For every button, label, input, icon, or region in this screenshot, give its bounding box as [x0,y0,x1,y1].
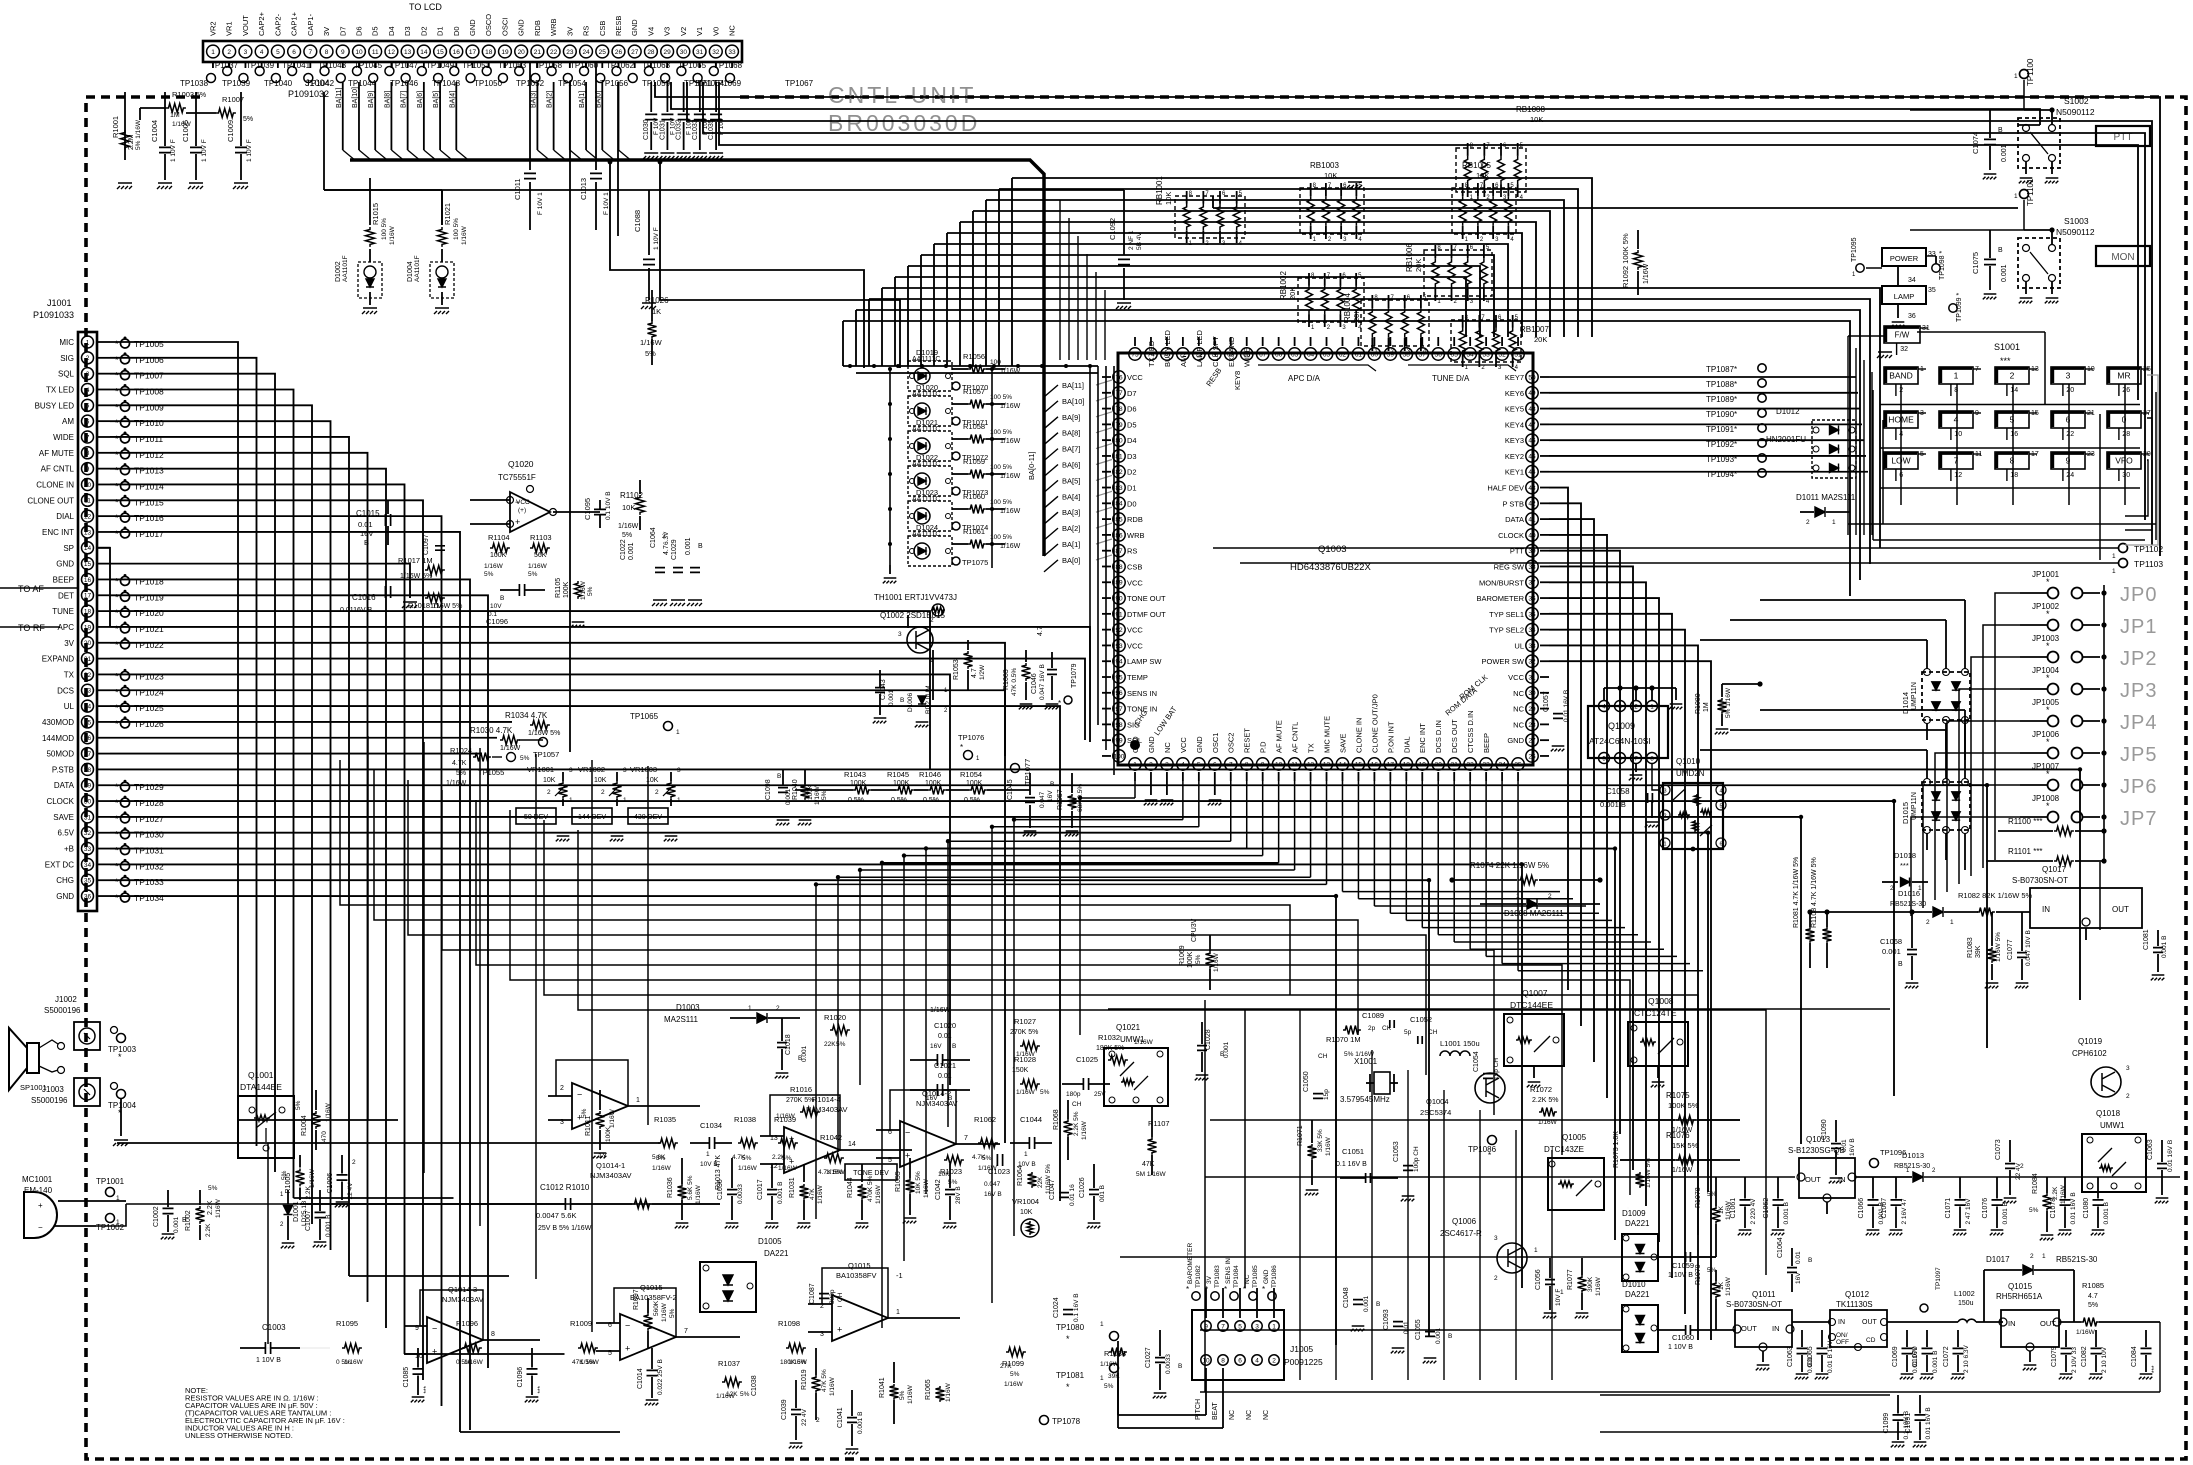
svg-text:R1046: R1046 [919,770,941,779]
svg-text:Q1019: Q1019 [2078,1037,2103,1046]
svg-text:1/16W: 1/16W [788,1359,808,1366]
svg-text:2 220 4V: 2 220 4V [1750,1198,1757,1225]
svg-text:RS: RS [582,26,591,36]
svg-text:IN: IN [1772,1324,1780,1333]
svg-text:TP1057: TP1057 [533,750,559,759]
svg-text:0.001 B: 0.001 B [777,1182,784,1204]
svg-text:CH: CH [837,1292,844,1302]
svg-text:D1005: D1005 [758,1237,782,1246]
svg-text:1/16W 5%: 1/16W 5% [528,730,560,737]
svg-text:15: 15 [1355,761,1363,768]
svg-text:C1084: C1084 [2131,1346,2138,1367]
svg-text:2.2K 5%: 2.2K 5% [1073,1111,1080,1136]
svg-text:C1002: C1002 [153,1206,160,1227]
svg-text:0.047: 0.047 [1039,791,1046,808]
svg-text:TP1038: TP1038 [180,79,209,88]
svg-text:9: 9 [86,466,90,473]
svg-text:R1004: R1004 [301,1115,308,1136]
svg-text:R1056: R1056 [963,352,985,361]
svg-text:L1002: L1002 [1954,1289,1975,1298]
svg-text:GND: GND [1195,736,1204,753]
svg-text:90: 90 [1115,595,1123,602]
svg-text:*: * [115,782,119,792]
svg-text:1/2W: 1/2W [979,664,986,680]
svg-text:IN: IN [2042,905,2050,914]
svg-text:22: 22 [1467,761,1475,768]
svg-text:R1082 82K 1/16W 5%: R1082 82K 1/16W 5% [1958,891,2033,900]
svg-text:1: 1 [1832,519,1836,526]
svg-text:*: * [1066,1334,1070,1344]
svg-text:10: 10 [355,49,363,56]
svg-text:5%: 5% [295,1100,302,1110]
svg-text:48: 48 [1528,406,1536,413]
svg-text:52: 52 [1498,351,1506,358]
svg-text:JP0: JP0 [2120,584,2157,606]
svg-text:12: 12 [1954,472,1962,479]
svg-text:TP1050: TP1050 [474,79,503,88]
svg-text:32: 32 [84,830,92,837]
svg-text:DA221: DA221 [764,1249,789,1258]
svg-text:7: 7 [1229,761,1233,768]
svg-text:C1041: C1041 [837,1407,844,1428]
svg-text:R1103: R1103 [530,533,552,542]
svg-text:BA[8]: BA[8] [384,91,391,108]
svg-text:TP1023: TP1023 [134,671,164,681]
svg-text:3: 3 [1663,788,1666,794]
svg-text:LAMP LED: LAMP LED [1195,329,1204,367]
svg-text:R1097: R1097 [633,1289,640,1310]
svg-text:22: 22 [2066,431,2074,438]
svg-text:BEAT: BEAT [1212,1402,1219,1420]
svg-text:C1096: C1096 [486,617,508,626]
svg-text:2.2K: 2.2K [205,1223,212,1237]
svg-text:*: * [115,386,119,396]
svg-text:100 5%: 100 5% [990,534,1012,541]
svg-text:C1009: C1009 [226,120,235,142]
svg-text:R1105: R1105 [555,578,562,598]
svg-text:TP1095: TP1095 [1851,237,1858,262]
svg-text:66: 66 [1275,351,1283,358]
svg-text:79: 79 [1115,422,1123,429]
svg-text:7: 7 [86,434,90,441]
svg-text:C1068: C1068 [1880,937,1902,946]
svg-text:24: 24 [1498,761,1506,768]
svg-text:BA[10]: BA[10] [1062,397,1085,406]
svg-text:D2: D2 [1127,468,1137,477]
svg-text:2: 2 [1149,761,1153,768]
svg-text:1/16W: 1/16W [464,1359,484,1366]
svg-text:29: 29 [1528,706,1536,713]
svg-text:13: 13 [84,529,92,536]
svg-text:1M: 1M [1703,702,1710,712]
svg-text:AA1111C: AA1111C [912,531,940,538]
svg-text:100 5%: 100 5% [990,394,1012,401]
svg-text:470: 470 [321,1131,328,1142]
svg-text:TP1016: TP1016 [134,513,164,523]
svg-text:0.01 16V B: 0.01 16V B [2167,1140,2174,1172]
svg-text:JP3: JP3 [2120,680,2157,702]
svg-text:*: * [115,861,119,871]
svg-text:TP1056: TP1056 [600,79,629,88]
svg-text:*: * [115,371,119,381]
svg-text:JP2: JP2 [2120,648,2157,670]
svg-text:−: − [577,1090,582,1100]
svg-text:62: 62 [1339,351,1347,358]
svg-text:CLONE OUT: CLONE OUT [27,496,74,505]
svg-text:+: + [625,1344,630,1354]
svg-text:84: 84 [1115,501,1123,508]
svg-text:TP1007: TP1007 [134,371,164,381]
svg-text:17: 17 [469,49,477,56]
svg-text:4.7: 4.7 [971,668,978,678]
svg-text:*: * [115,624,119,634]
svg-text:TUNE D/A: TUNE D/A [1432,374,1470,383]
svg-text:TEMP: TEMP [1127,673,1148,682]
svg-text:DCS D.IN: DCS D.IN [1434,720,1443,753]
svg-text:VOUT: VOUT [241,15,250,36]
svg-text:DIAL: DIAL [56,512,74,521]
svg-text:B: B [952,1043,956,1050]
svg-text:17: 17 [84,593,92,600]
svg-text:C1059: C1059 [1672,1261,1694,1270]
svg-text:1/16W: 1/16W [661,1302,668,1322]
svg-text:D2: D2 [419,26,428,36]
svg-text:NJM3403AV: NJM3403AV [442,1295,484,1304]
svg-text:UMP11N: UMP11N [1911,792,1918,820]
svg-text:*: * [115,877,119,887]
svg-text:0.001: 0.001 [173,1216,180,1233]
svg-text:RB521S-30: RB521S-30 [1890,901,1926,908]
svg-text:DA221: DA221 [1625,1219,1650,1228]
svg-text:MR: MR [2117,371,2130,381]
svg-text:TX LED: TX LED [1147,340,1156,367]
svg-text:C1028: C1028 [1205,1029,1212,1050]
svg-text:22: 22 [550,49,558,56]
svg-text:D1006: D1006 [907,692,914,712]
svg-text:16V B: 16V B [1849,1138,1856,1156]
svg-text:D4: D4 [387,26,396,36]
svg-text:EXPAND: EXPAND [42,655,75,664]
svg-text:0.01 16: 0.01 16 [1069,1184,1076,1206]
svg-text:TP1063: TP1063 [642,61,671,70]
svg-text:28: 28 [2122,431,2130,438]
svg-text:TP1013: TP1013 [134,466,164,476]
svg-text:8: 8 [491,1331,495,1338]
svg-text:NC: NC [1163,742,1172,753]
svg-text:0.001 B: 0.001 B [2161,936,2168,958]
svg-text:BA[7]: BA[7] [1062,445,1080,454]
svg-text:5% 1/16W: 5% 1/16W [1344,1051,1375,1058]
svg-text:39: 39 [1528,548,1536,555]
svg-text:2: 2 [1494,1275,1498,1282]
svg-text:D5: D5 [1127,420,1137,429]
svg-text:OSCO: OSCO [484,14,493,36]
svg-text:1/16W: 1/16W [875,1184,882,1204]
svg-text:R1061: R1061 [963,527,985,536]
svg-text:R1043: R1043 [844,770,866,779]
svg-text:98: 98 [1115,722,1123,729]
svg-text:TP1014: TP1014 [134,481,164,491]
svg-text:1/16W: 1/16W [1643,263,1650,284]
svg-text:P.ON INT: P.ON INT [1386,721,1395,753]
svg-text:+: + [515,517,520,527]
svg-text:UNLESS OTHERWISE NOTED.: UNLESS OTHERWISE NOTED. [185,1431,293,1440]
svg-text:CAP2+: CAP2+ [257,11,266,36]
svg-text:81: 81 [1115,453,1123,460]
svg-text:*: * [115,513,119,523]
svg-text:OUT: OUT [1862,1319,1878,1326]
svg-text:*: * [115,640,119,650]
svg-text:D1010: D1010 [1622,1280,1646,1289]
svg-text:10K: 10K [1164,192,1173,205]
svg-text:10: 10 [1202,1357,1210,1364]
svg-text:31: 31 [1528,674,1536,681]
svg-text:TP1058: TP1058 [534,61,563,70]
svg-text:1/16W 5%: 1/16W 5% [430,603,462,610]
svg-text:0.047 16V B: 0.047 16V B [1039,664,1046,700]
svg-text:1Y: 1Y [598,1151,607,1160]
svg-text:C1054: C1054 [1473,1051,1480,1072]
svg-text:TYP SEL2: TYP SEL2 [1489,626,1524,635]
svg-text:3V: 3V [322,27,331,36]
svg-text:R1068: R1068 [1053,1109,1060,1130]
svg-text:C1038: C1038 [751,1375,758,1396]
svg-text:5%: 5% [243,116,253,123]
svg-text:TP1049: TP1049 [426,61,455,70]
svg-text:9: 9 [1261,761,1265,768]
svg-text:R1070 1M: R1070 1M [1326,1035,1361,1044]
svg-text:R1104: R1104 [488,533,510,542]
svg-text:25V B 5% 1/16W: 25V B 5% 1/16W [538,1225,592,1232]
svg-text:12: 12 [1307,761,1315,768]
svg-text:34: 34 [84,862,92,869]
svg-text:10: 10 [1275,761,1283,768]
svg-text:BA[6]: BA[6] [1062,461,1080,470]
svg-text:1/16W: 1/16W [829,1376,836,1396]
svg-text:56: 56 [1435,351,1443,358]
svg-text:5: 5 [86,403,90,410]
svg-text:TP1099 *: TP1099 * [1956,293,1963,322]
svg-text:560K: 560K [653,1300,660,1316]
svg-text:NC: NC [1229,1410,1236,1420]
svg-text:D1017: D1017 [1986,1255,2010,1264]
svg-text:UMD2N: UMD2N [1676,769,1705,778]
svg-text:27: 27 [631,49,639,56]
svg-text:1/16W: 1/16W [1004,1381,1024,1388]
svg-text:AA1101F: AA1101F [342,255,349,282]
svg-text:BA10358FV: BA10358FV [836,1271,876,1280]
svg-text:RH5RH651A: RH5RH651A [1996,1292,2043,1301]
svg-text:JP4: JP4 [2120,712,2157,734]
svg-text:TK11130S: TK11130S [1836,1300,1873,1309]
svg-text:***: *** [1900,861,1909,870]
svg-text:BA[5]: BA[5] [433,91,440,108]
svg-text:R1009: R1009 [570,1319,592,1328]
svg-text:*: * [115,671,119,681]
svg-text:22K: 22K [1037,1176,1044,1188]
svg-text:16: 16 [453,49,461,56]
svg-text:NJM3403AV: NJM3403AV [806,1105,848,1114]
svg-text:8: 8 [1221,1357,1225,1364]
svg-text:1: 1 [896,1309,900,1316]
svg-text:0.01: 0.01 [1841,1139,1848,1152]
svg-text:TH1001 ERTJ1VV473J: TH1001 ERTJ1VV473J [874,593,957,602]
svg-text:20: 20 [1435,761,1443,768]
svg-text:KEY7: KEY7 [1505,373,1524,382]
svg-text:R1057: R1057 [963,387,985,396]
svg-text:*: * [115,687,119,697]
svg-text:TP1002: TP1002 [96,1223,125,1232]
svg-text:64: 64 [1307,351,1315,358]
svg-text:5: 5 [1197,761,1201,768]
svg-text:150u: 150u [1958,1300,1974,1307]
svg-text:PITCH: PITCH [1195,1399,1202,1420]
svg-text:8: 8 [2010,456,2015,466]
svg-text:9: 9 [2066,456,2071,466]
svg-text:D1011 MA2S111: D1011 MA2S111 [1796,493,1856,502]
svg-text:6: 6 [1213,761,1217,768]
svg-text:R1069: R1069 [1179,945,1186,966]
svg-text:100: 100 [1114,753,1125,760]
svg-text:29: 29 [84,783,92,790]
svg-text:BEEP: BEEP [1482,733,1491,753]
svg-text:1: 1 [1024,1151,1028,1158]
svg-text:35: 35 [84,878,92,885]
svg-text:AA1111C: AA1111C [912,461,940,468]
svg-text:C1079: C1079 [2051,1346,2058,1367]
svg-text:C1063: C1063 [2147,1139,2154,1160]
svg-text:OUT: OUT [1805,1175,1821,1184]
svg-text:10V F: 10V F [1555,1289,1562,1306]
svg-text:ENC INT: ENC INT [1418,723,1427,753]
svg-text:TP1011: TP1011 [134,434,163,444]
svg-text:76: 76 [1115,374,1123,381]
svg-text:B: B [1898,961,1903,968]
svg-text:R1072: R1072 [1530,1085,1552,1094]
svg-text:−: − [905,1128,910,1138]
svg-text:1: 1 [2112,568,2116,575]
svg-text:5B 4V: 5B 4V [1136,232,1143,250]
svg-text:VCC: VCC [1508,673,1524,682]
svg-text:C1095: C1095 [583,498,592,520]
svg-text:1/16W: 1/16W [580,1359,600,1366]
svg-text:B: B [1178,1363,1182,1370]
svg-text:BA[0-11]: BA[0-11] [1027,451,1036,480]
svg-text:CH: CH [1072,1101,1082,1108]
svg-text:S5000196: S5000196 [44,1006,81,1015]
svg-text:80: 80 [1115,438,1123,445]
svg-text:D1016: D1016 [1898,889,1920,898]
svg-text:2.2M: 2.2M [128,134,135,150]
svg-text:TO RF: TO RF [18,623,45,633]
svg-text:C1076: C1076 [1982,1198,1989,1219]
svg-text:*: * [115,497,119,507]
svg-text:AF MUTE: AF MUTE [1275,720,1284,753]
svg-text:OFF: OFF [1836,1339,1849,1346]
svg-text:***: *** [2000,356,2011,366]
svg-text:1: 1 [2042,1253,2046,1260]
svg-text:BA[1]: BA[1] [579,91,586,108]
svg-text:VCC: VCC [1127,626,1143,635]
svg-text:HALF DEV: HALF DEV [1487,484,1524,493]
svg-text:*: * [960,743,963,752]
svg-text:1/16W: 1/16W [172,121,192,128]
svg-text:D5: D5 [371,26,380,36]
svg-text:GND: GND [1131,736,1140,753]
svg-text:BA[3]: BA[3] [530,91,537,108]
svg-text:C1096: C1096 [517,1367,524,1388]
svg-text:TP1037: TP1037 [210,61,239,70]
svg-text:−: − [432,1324,437,1334]
svg-text:*: * [115,893,119,903]
svg-text:P1091032: P1091032 [288,89,329,99]
svg-text:47K 5%: 47K 5% [821,1369,828,1392]
svg-text:TP1001: TP1001 [96,1177,125,1186]
svg-text:TP1086: TP1086 [1271,1265,1278,1288]
svg-text:R1028: R1028 [1014,1055,1036,1064]
svg-text:TUNE: TUNE [52,607,74,616]
svg-text:D1009: D1009 [1622,1209,1646,1218]
svg-text:5M 1/16W: 5M 1/16W [1136,1171,1166,1178]
svg-text:10K: 10K [1020,1209,1033,1216]
svg-text:OUT: OUT [2112,905,2129,914]
svg-text:63: 63 [1323,351,1331,358]
svg-text:2: 2 [2030,1253,2034,1260]
svg-text:R1108 4.7K 1/16W 5%: R1108 4.7K 1/16W 5% [1811,857,1818,928]
svg-text:1K: 1K [652,307,661,316]
svg-text:0.01 16V B: 0.01 16V B [1563,690,1570,722]
svg-text:5%: 5% [484,571,494,578]
svg-text:C1072: C1072 [1943,1346,1950,1367]
svg-text:TP1012: TP1012 [134,450,164,460]
svg-text:1/16W: 1/16W [2060,1184,2067,1204]
svg-text:*: * [115,339,119,349]
svg-text:20: 20 [518,49,526,56]
svg-text:DET: DET [58,591,74,600]
svg-text:100 5%: 100 5% [990,464,1012,471]
svg-text:TP1079: TP1079 [1071,663,1078,688]
svg-text:*: * [115,529,119,539]
svg-text:TP1020: TP1020 [134,608,164,618]
svg-text:OSCI: OSCI [500,18,509,36]
svg-text:30: 30 [680,49,688,56]
svg-text:CLONE OUT/JP0: CLONE OUT/JP0 [1370,694,1379,753]
svg-text:TP1101: TP1101 [2026,178,2035,206]
svg-text:R1065: R1065 [925,1379,932,1400]
svg-text:31: 31 [84,814,92,821]
svg-text:*: * [115,592,119,602]
svg-text:C1057: C1057 [1543,691,1550,712]
svg-text:1/16W: 1/16W [344,1359,364,1366]
svg-text:TP1006: TP1006 [134,355,164,365]
svg-text:0.001: 0.001 [1223,1041,1230,1058]
svg-text:1: 1 [1950,919,1954,926]
svg-text:R1038: R1038 [734,1115,756,1124]
svg-text:UMP11N: UMP11N [1911,682,1918,710]
svg-text:C1064: C1064 [650,527,657,548]
svg-text:Q1012: Q1012 [1845,1290,1870,1299]
svg-text:26: 26 [2122,387,2130,394]
svg-text:1: 1 [2014,193,2018,200]
svg-text:C1075: C1075 [1971,252,1980,274]
svg-text:47K 0.5%: 47K 0.5% [1011,668,1018,696]
svg-text:C1031: C1031 [659,119,666,140]
svg-text:R1001: R1001 [111,116,120,138]
svg-text:TP1008: TP1008 [134,386,164,396]
svg-text:C1097: C1097 [423,534,430,555]
svg-text:5%: 5% [281,1170,288,1180]
svg-text:5%: 5% [982,1155,992,1162]
